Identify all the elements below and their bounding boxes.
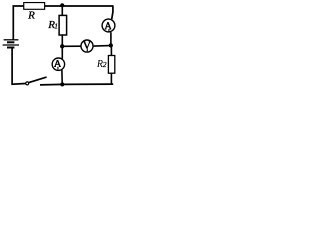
wire R1 bottom lead xyxy=(61,35,63,45)
wire R2 bottom to bottom-right corner xyxy=(110,73,112,83)
wire mid node down to ammeter A1 xyxy=(61,47,63,59)
node top junction dot xyxy=(60,3,64,7)
wire voltmeter to right node xyxy=(94,45,110,48)
resistor R xyxy=(24,3,45,10)
ammeter A2 xyxy=(102,19,115,32)
switch S blade xyxy=(28,77,46,83)
switch S pivot xyxy=(26,82,29,85)
battery BT short plate 1 xyxy=(7,41,14,43)
wire R1 top lead xyxy=(61,6,63,16)
wire top-left corner to resistor R xyxy=(13,6,23,40)
svg-text:2: 2 xyxy=(103,60,107,69)
svg-text:R: R xyxy=(27,9,35,21)
battery BT short plate 2 xyxy=(7,47,14,49)
wire mid node to voltmeter xyxy=(62,45,80,47)
node right junction dot xyxy=(109,43,113,47)
node bottom junction dot xyxy=(60,82,64,86)
svg-text:1: 1 xyxy=(54,22,58,31)
wire bottom (right section, corner to switch) xyxy=(40,83,113,86)
resistor R1 xyxy=(59,15,67,35)
wire bottom-left (switch to corner, up to battery) xyxy=(12,47,26,84)
wire right node to R2 xyxy=(110,46,112,56)
wire top (R to top-right corner) xyxy=(45,5,113,7)
resistor R2 xyxy=(108,56,114,74)
wire ammeter A1 down to bottom node xyxy=(61,70,63,84)
battery BT long plate 2 xyxy=(3,44,19,46)
battery BT long plate 1 xyxy=(4,39,19,41)
wire top-right corner down to ammeter A2 xyxy=(112,5,113,19)
node mid junction dot xyxy=(60,44,64,48)
wire ammeter A2 down to right node xyxy=(110,32,112,45)
voltmeter U1 V xyxy=(81,40,93,52)
ammeter A1 xyxy=(52,58,64,70)
